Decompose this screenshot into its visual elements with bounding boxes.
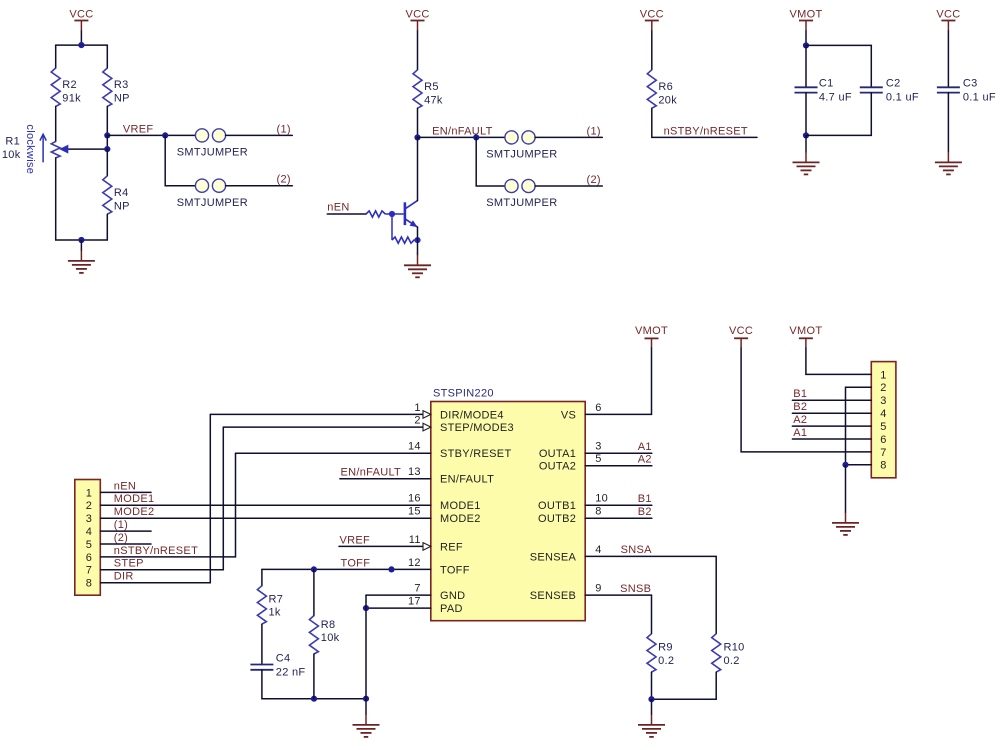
svg-text:OUTB1: OUTB1: [538, 500, 576, 512]
wire VCC to JP2 pin7: [741, 348, 871, 452]
power symbol VCC (right header): [729, 325, 753, 348]
node sense ground junction: [648, 696, 654, 702]
svg-text:1: 1: [880, 369, 886, 381]
svg-text:C1: C1: [819, 78, 834, 90]
potentiometer R1 wiper arrow: [59, 145, 107, 154]
svg-text:VS: VS: [561, 409, 576, 421]
node C1 bottom junction: [803, 132, 809, 138]
svg-text:1: 1: [86, 487, 92, 499]
svg-text:VCC: VCC: [640, 9, 664, 21]
svg-text:A2: A2: [793, 414, 807, 426]
wire IC pin 12 (TOFF): [262, 568, 431, 570]
svg-text:MODE2: MODE2: [114, 506, 155, 518]
connector JP2 body (right header): [871, 362, 896, 478]
resistor R2: [51, 68, 81, 106]
wire VCC to R5: [417, 31, 419, 70]
ground (JP2): [832, 465, 859, 535]
svg-text:DIR/MODE4: DIR/MODE4: [440, 409, 504, 421]
power symbol VCC (C3): [936, 9, 960, 31]
svg-text:17: 17: [408, 596, 421, 608]
wire IC pin 8 (OUTB2): [585, 517, 652, 519]
IC U1 STSPIN220 body: [431, 402, 585, 621]
svg-text:6: 6: [86, 552, 92, 564]
svg-text:5: 5: [86, 539, 92, 551]
wire C4 to bottom rail: [262, 670, 366, 699]
wire VCC to R6: [651, 31, 653, 70]
wire SNSA down: [715, 556, 717, 633]
wire IC pin 16 (MODE1): [100, 504, 431, 506]
svg-text:nSTBY/nRESET: nSTBY/nRESET: [664, 125, 748, 137]
svg-text:10: 10: [595, 493, 608, 505]
svg-text:STEP: STEP: [114, 558, 144, 570]
node PAD junction: [363, 605, 369, 611]
jumper SMTJUMPER (VREF 1): [177, 129, 248, 159]
svg-text:SMTJUMPER: SMTJUMPER: [486, 149, 557, 161]
wire jumper1 to (1): [226, 134, 293, 136]
svg-text:B1: B1: [793, 388, 807, 400]
wire JP2 B2: [792, 412, 871, 414]
wire R2 bottom to pot: [55, 106, 57, 141]
wire IC pin 10 (OUTB1): [585, 504, 652, 506]
resistor R9: [647, 634, 674, 672]
wire SNSB down: [651, 595, 653, 634]
svg-text:SNSB: SNSB: [620, 583, 651, 595]
wire header pin3 MODE2 to IC: [100, 517, 431, 519]
node TOFF junction R8: [311, 566, 317, 572]
wire R10 bottom: [652, 672, 717, 699]
jumper SMTJUMPER (EN 1): [486, 131, 557, 161]
svg-text:0.1 uF: 0.1 uF: [886, 92, 919, 104]
capacitor C4: [250, 653, 305, 679]
svg-text:11: 11: [409, 534, 421, 546]
power symbol VCC (R6): [640, 9, 664, 31]
wire jumper2 to (2): [226, 185, 293, 187]
svg-text:C3: C3: [963, 78, 978, 90]
svg-text:EN/FAULT: EN/FAULT: [440, 474, 494, 486]
node TOFF junction right: [388, 566, 394, 572]
svg-text:R2: R2: [62, 79, 77, 91]
svg-text:20k: 20k: [658, 94, 677, 106]
svg-text:R10: R10: [724, 642, 745, 654]
wire header pin4 (1) stub: [100, 530, 151, 532]
svg-text:3: 3: [86, 513, 92, 525]
wire top horizontal R2-R3: [56, 44, 108, 46]
wire R8 bottom lead: [313, 654, 315, 699]
svg-text:6: 6: [880, 434, 886, 446]
ground (GND PAD C4): [353, 699, 380, 737]
node wiper junction: [104, 146, 110, 152]
svg-text:C2: C2: [886, 78, 901, 90]
svg-text:VMOT: VMOT: [635, 325, 668, 337]
svg-text:VREF: VREF: [123, 123, 154, 135]
pin 2 input arrow: [423, 423, 431, 431]
svg-text:4: 4: [880, 408, 886, 420]
svg-text:2: 2: [414, 415, 420, 427]
svg-text:R7: R7: [269, 593, 284, 605]
svg-text:SENSEA: SENSEA: [530, 551, 577, 563]
wire VREF horizontal: [107, 134, 195, 136]
capacitor C3: [937, 78, 996, 104]
svg-text:VREF: VREF: [340, 534, 371, 546]
wire C3 bottom lead: [947, 93, 949, 152]
jumper SMTJUMPER (VREF 2): [177, 179, 248, 209]
wire IC pin 9 (SENSEB): [585, 594, 651, 596]
wire JP2 pin8: [846, 464, 872, 466]
svg-text:R3: R3: [114, 79, 129, 91]
power symbol VCC (top-left): [69, 9, 93, 31]
svg-text:MODE2: MODE2: [440, 513, 481, 525]
wire EN/nFAULT horizontal: [418, 136, 505, 138]
transistor Q1 base-emitter resistor: [392, 214, 418, 243]
svg-text:C4: C4: [276, 653, 291, 665]
wire IC pin 17 (PAD): [366, 607, 431, 609]
svg-text:STSPIN220: STSPIN220: [433, 388, 494, 400]
svg-text:VCC: VCC: [69, 9, 93, 21]
svg-text:MODE1: MODE1: [114, 493, 155, 505]
wire IC pin 7 (GND): [366, 594, 431, 596]
svg-text:3: 3: [880, 395, 886, 407]
node EN jumper junction: [473, 134, 479, 140]
wire R7 to C4: [261, 624, 263, 664]
svg-text:VMOT: VMOT: [790, 9, 823, 21]
svg-text:2: 2: [880, 382, 886, 394]
resistor R6: [647, 70, 677, 108]
svg-text:(2): (2): [277, 174, 291, 186]
wire VREF node to wiper node: [106, 135, 108, 149]
wire VMOT down to VS: [651, 348, 653, 414]
arrow clockwise direction: [40, 134, 46, 162]
wire R2 top lead: [55, 45, 57, 68]
node Q1 base junction: [389, 211, 395, 217]
node VREF junction: [104, 132, 110, 138]
wire R5 to EN node: [417, 108, 419, 137]
svg-text:0.2: 0.2: [724, 655, 740, 667]
svg-text:22 nF: 22 nF: [276, 667, 306, 679]
wire IC pin 15 (MODE2): [100, 517, 431, 519]
resistor R3: [103, 68, 130, 106]
svg-text:SMTJUMPER: SMTJUMPER: [177, 197, 248, 209]
capacitor C2: [860, 78, 919, 104]
wire R3 bottom to VREF node: [106, 106, 108, 135]
svg-text:1: 1: [414, 402, 420, 414]
svg-text:8: 8: [595, 506, 601, 518]
node Q1 emitter junction: [414, 237, 420, 243]
svg-text:B1: B1: [638, 493, 652, 505]
wire VCC to C3: [947, 31, 949, 87]
wire pot bottom to ground rail: [55, 158, 57, 240]
svg-text:10k: 10k: [321, 632, 340, 644]
svg-text:(2): (2): [587, 174, 601, 186]
resistor R5: [413, 70, 443, 108]
svg-text:STEP/MODE3: STEP/MODE3: [440, 422, 514, 434]
svg-text:6: 6: [595, 402, 601, 414]
svg-text:(2): (2): [114, 532, 128, 544]
wire header pin5 (2) stub: [100, 543, 151, 545]
resistor R7: [257, 586, 283, 624]
wire JP2 A1: [792, 438, 871, 440]
svg-text:NP: NP: [114, 93, 130, 105]
wire IC pin 6 (VS): [585, 413, 651, 415]
wire Q1 emitter down: [417, 227, 419, 253]
svg-text:nEN: nEN: [114, 480, 136, 492]
svg-text:B2: B2: [793, 401, 807, 413]
svg-text:EN/nFAULT: EN/nFAULT: [341, 467, 402, 479]
wire VCC to top node: [80, 31, 82, 45]
resistor R4: [103, 176, 130, 214]
wire R3 top lead: [106, 45, 108, 68]
svg-text:TOFF: TOFF: [440, 564, 470, 576]
wire wiper node to R4: [106, 149, 108, 176]
wire TOFF corner to R7: [261, 569, 263, 585]
svg-text:7: 7: [414, 583, 420, 595]
wire IC pin 4 (SENSEA): [585, 555, 716, 557]
node JP2 ground junction: [842, 462, 848, 468]
resistor R10: [712, 634, 745, 672]
wire VMOT to JP2 pin1: [806, 348, 871, 374]
ground (Q1 emitter): [404, 253, 431, 277]
wire Q1 collector up: [417, 137, 419, 200]
wire JP2 A2: [792, 425, 871, 427]
svg-text:OUTB2: OUTB2: [538, 513, 576, 525]
svg-text:DIR: DIR: [114, 571, 134, 583]
wire JP2 pin2 to ground bus: [846, 387, 872, 465]
node VMOT top junction: [803, 42, 809, 48]
wire R9 bottom: [651, 672, 653, 699]
svg-text:(1): (1): [587, 125, 601, 137]
svg-text:4: 4: [86, 526, 92, 538]
node bottom rail junction: [78, 237, 84, 243]
svg-text:VCC: VCC: [936, 9, 960, 21]
svg-text:OUTA1: OUTA1: [539, 448, 576, 460]
wire IC pin 13 (EN/FAULT): [340, 478, 431, 480]
power symbol VMOT (VS): [635, 325, 668, 348]
svg-text:7: 7: [880, 447, 886, 459]
wire GND PAD vertical: [365, 595, 367, 699]
svg-text:5: 5: [880, 421, 886, 433]
wire IC pin 2 (STEP/MODE3): [223, 426, 423, 428]
wire JP2 B1: [792, 399, 871, 401]
svg-text:clockwise: clockwise: [24, 124, 36, 174]
pin 1 input arrow: [423, 411, 431, 419]
svg-text:12: 12: [408, 557, 421, 569]
capacitor C1: [795, 78, 852, 104]
wire C1 bottom lead: [805, 93, 807, 136]
svg-text:R5: R5: [424, 81, 439, 93]
ground (C3): [935, 152, 962, 174]
wire header pin8 DIR: [100, 414, 210, 582]
svg-text:15: 15: [408, 506, 421, 518]
svg-text:MODE1: MODE1: [440, 500, 481, 512]
wire IC pin 1 (DIR/MODE4): [210, 413, 423, 415]
svg-text:TOFF: TOFF: [341, 557, 371, 569]
ground (sense resistors): [638, 699, 665, 737]
svg-text:PAD: PAD: [440, 603, 463, 615]
svg-text:OUTA2: OUTA2: [539, 461, 576, 473]
potentiometer R1 body: [51, 141, 60, 158]
wire C2 loop bottom: [806, 93, 871, 136]
svg-text:R8: R8: [321, 619, 336, 631]
svg-text:R9: R9: [658, 642, 673, 654]
svg-text:VCC: VCC: [405, 9, 429, 21]
pin 11 input arrow: [423, 543, 431, 551]
svg-text:5: 5: [595, 453, 601, 465]
svg-text:8: 8: [880, 460, 886, 472]
wire R6 to nSTBY/nRESET: [652, 108, 757, 137]
wire header pin7 STEP: [100, 427, 223, 570]
svg-text:0.2: 0.2: [658, 655, 674, 667]
svg-text:SMTJUMPER: SMTJUMPER: [486, 197, 557, 209]
svg-text:A2: A2: [638, 454, 652, 466]
wire EN jumper2 to (2): [535, 185, 602, 187]
svg-text:(1): (1): [114, 519, 128, 531]
svg-text:A1: A1: [638, 441, 652, 453]
wire R4 bottom lead: [106, 214, 108, 240]
wire IC pin 11 (REF): [339, 545, 423, 547]
power symbol VMOT (right header): [789, 325, 822, 348]
wire header pin1 nEN stub: [100, 491, 151, 493]
ground (C1 C2): [793, 135, 820, 174]
transistor Q1 (pre-biased NPN): [385, 201, 417, 228]
svg-text:SMTJUMPER: SMTJUMPER: [177, 147, 248, 159]
svg-text:9: 9: [595, 583, 601, 595]
power symbol VCC (R5): [405, 9, 429, 31]
node EN/nFAULT junction (collector): [414, 134, 420, 140]
wire VMOT to C1 node: [805, 31, 807, 45]
svg-text:0.1 uF: 0.1 uF: [963, 92, 996, 104]
svg-text:VMOT: VMOT: [789, 325, 822, 337]
svg-text:(1): (1): [277, 123, 291, 135]
svg-text:nEN: nEN: [327, 201, 349, 213]
svg-text:14: 14: [408, 441, 421, 453]
wire VREF down to jumper2: [165, 135, 195, 185]
wire R8 top lead: [313, 569, 315, 615]
svg-text:4: 4: [595, 544, 601, 556]
power symbol VMOT (C1): [790, 9, 823, 31]
svg-text:10k: 10k: [2, 149, 21, 161]
svg-text:SENSEB: SENSEB: [530, 590, 576, 602]
svg-text:13: 13: [408, 466, 421, 478]
connector JP1 body (left header): [75, 480, 101, 596]
svg-text:NP: NP: [114, 200, 130, 212]
node VREF jumper junction: [162, 132, 168, 138]
svg-text:2: 2: [86, 500, 92, 512]
svg-text:16: 16: [408, 493, 421, 505]
svg-text:EN/nFAULT: EN/nFAULT: [432, 125, 493, 137]
node bottom rail ground junction: [363, 696, 369, 702]
wire EN jumper1 to (1): [535, 136, 602, 138]
wire IC pin 3 (OUTA1): [585, 452, 652, 454]
jumper SMTJUMPER (EN 2): [486, 179, 557, 209]
ground (VREF divider): [68, 240, 95, 273]
svg-text:REF: REF: [440, 541, 463, 553]
wire C2 loop top: [806, 45, 871, 87]
svg-text:47k: 47k: [424, 94, 443, 106]
wire IC pin 14 (STBY/RESET): [236, 452, 431, 454]
svg-text:STBY/RESET: STBY/RESET: [440, 448, 511, 460]
wire header pin2 MODE1 to IC: [100, 504, 431, 506]
wire nEN to base resistor: [327, 213, 366, 215]
svg-text:R4: R4: [114, 187, 129, 199]
svg-text:7: 7: [86, 565, 92, 577]
wire EN down to jumper2: [476, 137, 505, 186]
node junction VCC top-left: [78, 42, 84, 48]
svg-text:VCC: VCC: [729, 325, 753, 337]
svg-text:nSTBY/nRESET: nSTBY/nRESET: [114, 545, 198, 557]
node bottom rail R8 junction: [311, 696, 317, 702]
wire bottom rail left: [56, 239, 108, 241]
svg-text:SNSA: SNSA: [621, 544, 653, 556]
transistor Q1 base resistor: [366, 211, 385, 217]
svg-text:1k: 1k: [269, 607, 281, 619]
svg-text:A1: A1: [793, 427, 807, 439]
wire IC pin 5 (OUTA2): [585, 465, 652, 467]
svg-text:8: 8: [86, 578, 92, 590]
svg-text:GND: GND: [440, 590, 465, 602]
svg-text:91k: 91k: [62, 93, 81, 105]
svg-text:B2: B2: [638, 506, 652, 518]
svg-text:R1: R1: [5, 136, 20, 148]
svg-text:R6: R6: [658, 81, 673, 93]
resistor R8: [309, 616, 339, 654]
wire C1 top lead: [805, 45, 807, 87]
wire header pin6 nSTBY/nRESET: [100, 453, 235, 557]
svg-text:4.7 uF: 4.7 uF: [819, 92, 852, 104]
svg-text:3: 3: [595, 441, 601, 453]
